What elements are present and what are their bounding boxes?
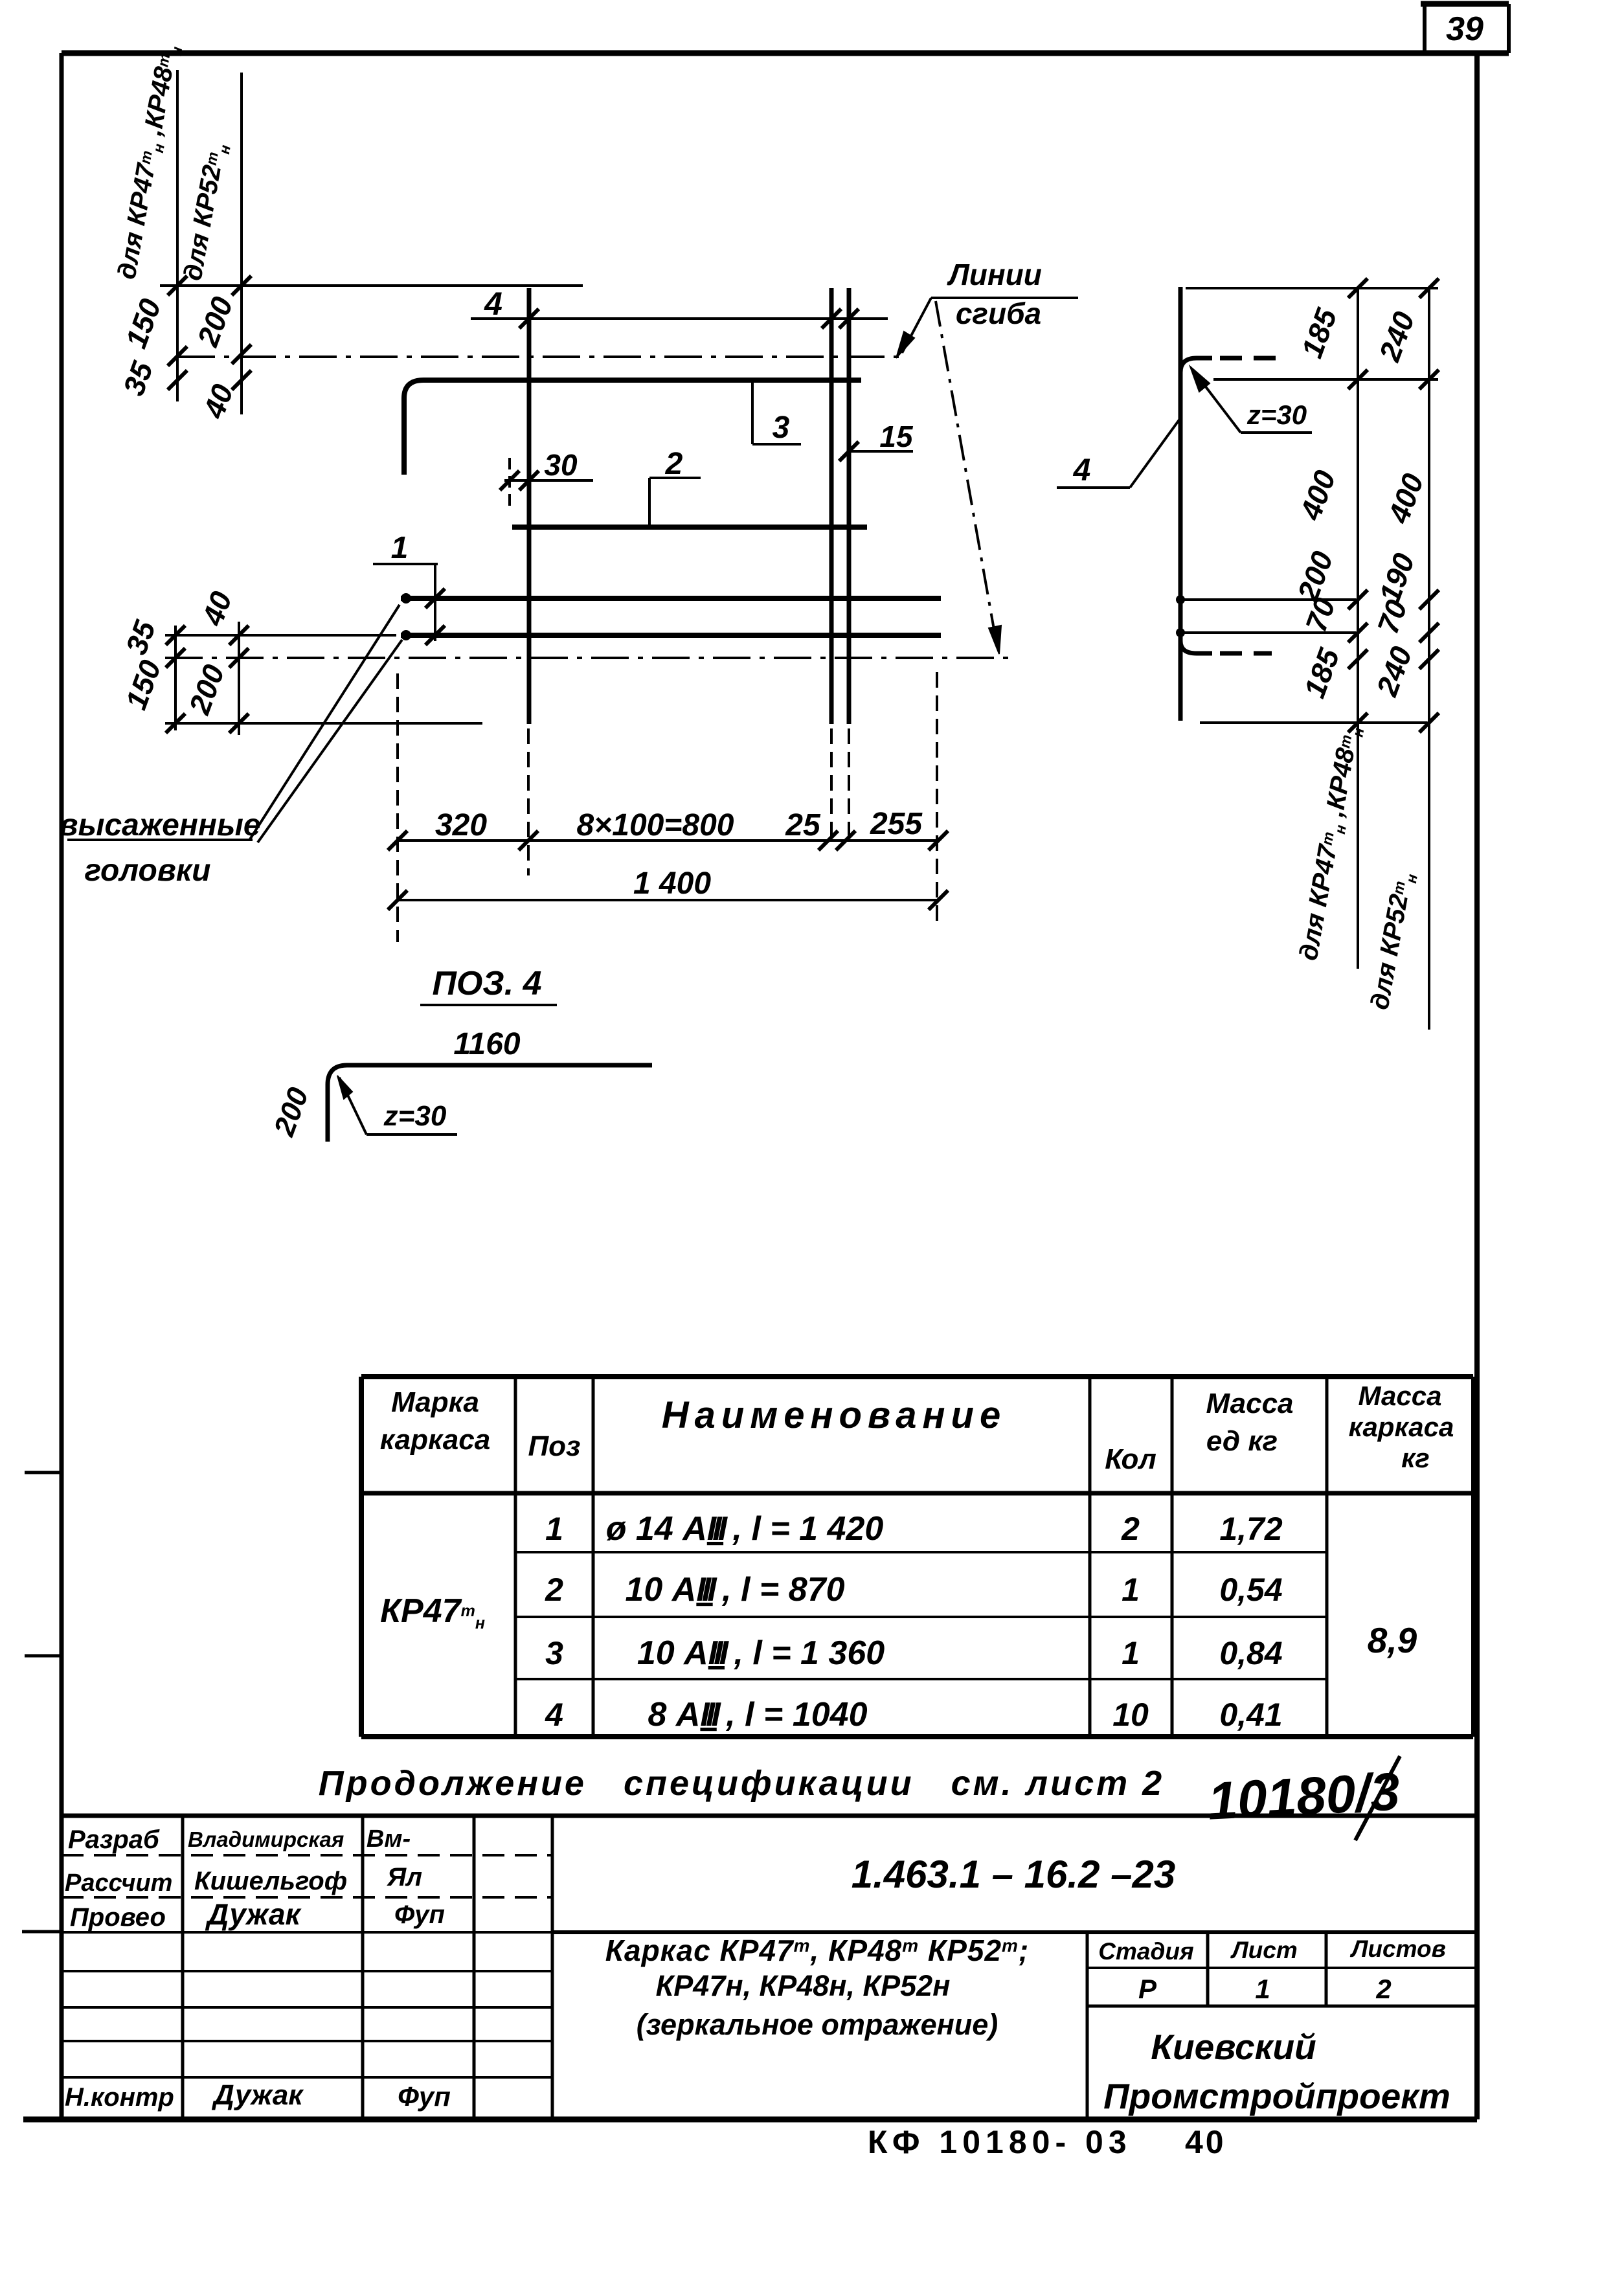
svg-text:высаженные: высаженные xyxy=(59,808,260,842)
svg-text:10 АIII , l = 870: 10 АIII , l = 870 xyxy=(626,1571,845,1608)
svg-text:Владимирская: Владимирская xyxy=(188,1827,344,1851)
svg-text:Ял: Ял xyxy=(387,1863,422,1891)
svg-text:1: 1 xyxy=(1255,1974,1270,2004)
svg-text:Промстройпроект: Промстройпроект xyxy=(1103,2076,1450,2116)
svg-text:3: 3 xyxy=(545,1635,563,1671)
svg-text:320: 320 xyxy=(435,808,487,842)
svg-text:Кол: Кол xyxy=(1105,1443,1156,1475)
svg-text:КФ 10180- 03: КФ 10180- 03 xyxy=(868,2124,1132,2160)
svg-text:Фуп: Фуп xyxy=(398,2081,451,2112)
svg-text:ПОЗ. 4: ПОЗ. 4 xyxy=(432,965,541,1002)
svg-text:10180/3: 10180/3 xyxy=(1206,1762,1401,1831)
svg-text:головки: головки xyxy=(85,853,211,888)
svg-text:Поз: Поз xyxy=(528,1430,581,1462)
svg-text:ø 14 АIII , l = 1 420: ø 14 АIII , l = 1 420 xyxy=(606,1510,884,1548)
svg-text:каркаса: каркаса xyxy=(1349,1412,1454,1442)
svg-text:Линии: Линии xyxy=(947,258,1042,291)
svg-text:сгиба: сгиба xyxy=(956,297,1041,330)
svg-text:2: 2 xyxy=(1375,1974,1391,2004)
svg-text:1: 1 xyxy=(1122,1572,1140,1608)
svg-text:1 400: 1 400 xyxy=(633,866,711,901)
svg-text:1160: 1160 xyxy=(453,1027,521,1061)
svg-text:15: 15 xyxy=(879,420,914,453)
svg-text:1: 1 xyxy=(391,531,409,565)
svg-text:Дужак: Дужак xyxy=(211,2079,304,2111)
svg-text:z=30: z=30 xyxy=(383,1100,447,1132)
svg-text:Продолжение спецификации с: Продолжение спецификации см. лист 2 xyxy=(319,1764,1164,1803)
svg-text:Листов: Листов xyxy=(1349,1936,1446,1962)
svg-text:каркаса: каркаса xyxy=(380,1424,490,1456)
svg-text:Киевский: Киевский xyxy=(1151,2027,1316,2067)
svg-text:Марка: Марка xyxy=(391,1386,479,1418)
svg-text:Масса: Масса xyxy=(1359,1381,1442,1411)
svg-text:4: 4 xyxy=(545,1697,563,1733)
svg-text:40: 40 xyxy=(1185,2124,1226,2160)
svg-text:2: 2 xyxy=(545,1572,563,1608)
svg-text:Лист: Лист xyxy=(1230,1937,1298,1963)
svg-text:Р: Р xyxy=(1138,1974,1157,2004)
svg-text:0,54: 0,54 xyxy=(1219,1572,1282,1608)
svg-text:Н.контр: Н.контр xyxy=(65,2083,174,2112)
svg-text:ед кг: ед кг xyxy=(1206,1425,1278,1457)
svg-text:1: 1 xyxy=(545,1511,563,1547)
svg-text:Провео: Провео xyxy=(70,1903,166,1932)
svg-text:кг: кг xyxy=(1401,1443,1430,1473)
svg-text:0,41: 0,41 xyxy=(1219,1697,1282,1733)
svg-text:КР47н, КР48н, КР52н: КР47н, КР48н, КР52н xyxy=(656,1969,951,2002)
svg-text:8,9: 8,9 xyxy=(1368,1620,1417,1660)
svg-text:2: 2 xyxy=(1121,1511,1140,1547)
svg-text:Каркас КР47т, КР48т КР52т;: Каркас КР47т, КР48т КР52т; xyxy=(605,1934,1030,1967)
svg-text:0,84: 0,84 xyxy=(1219,1635,1282,1671)
svg-text:10: 10 xyxy=(1112,1697,1149,1733)
svg-text:Рассчит: Рассчит xyxy=(65,1869,172,1897)
svg-text:Фуп: Фуп xyxy=(394,1901,445,1929)
svg-text:Вм-: Вм- xyxy=(367,1825,411,1853)
svg-text:3: 3 xyxy=(773,411,790,445)
svg-text:Дужак: Дужак xyxy=(205,1897,302,1931)
svg-text:25: 25 xyxy=(785,808,821,842)
svg-text:30: 30 xyxy=(544,448,578,482)
svg-text:255: 255 xyxy=(870,807,923,841)
svg-text:Кишельгоф: Кишельгоф xyxy=(194,1867,347,1895)
svg-text:z=30: z=30 xyxy=(1246,400,1307,430)
svg-text:1: 1 xyxy=(1122,1635,1140,1671)
svg-text:Наименование: Наименование xyxy=(662,1394,1006,1436)
svg-text:Масса: Масса xyxy=(1206,1388,1293,1419)
svg-text:1,72: 1,72 xyxy=(1219,1511,1283,1547)
svg-text:8×100=800: 8×100=800 xyxy=(577,808,734,842)
svg-text:8 АIII , l = 1040: 8 АIII , l = 1040 xyxy=(648,1696,868,1733)
svg-text:Стадия: Стадия xyxy=(1098,1938,1194,1965)
svg-text:Разраб: Разраб xyxy=(68,1825,160,1854)
svg-text:10 АIII , l = 1 360: 10 АIII , l = 1 360 xyxy=(637,1634,885,1672)
svg-text:39: 39 xyxy=(1446,10,1483,48)
svg-text:2: 2 xyxy=(665,447,683,481)
svg-text:(зеркальное отражение): (зеркальное отражение) xyxy=(637,2008,998,2041)
svg-text:1.463.1 – 16.2 –23: 1.463.1 – 16.2 –23 xyxy=(851,1853,1175,1896)
svg-text:4: 4 xyxy=(484,286,502,322)
svg-text:4: 4 xyxy=(1073,453,1091,488)
